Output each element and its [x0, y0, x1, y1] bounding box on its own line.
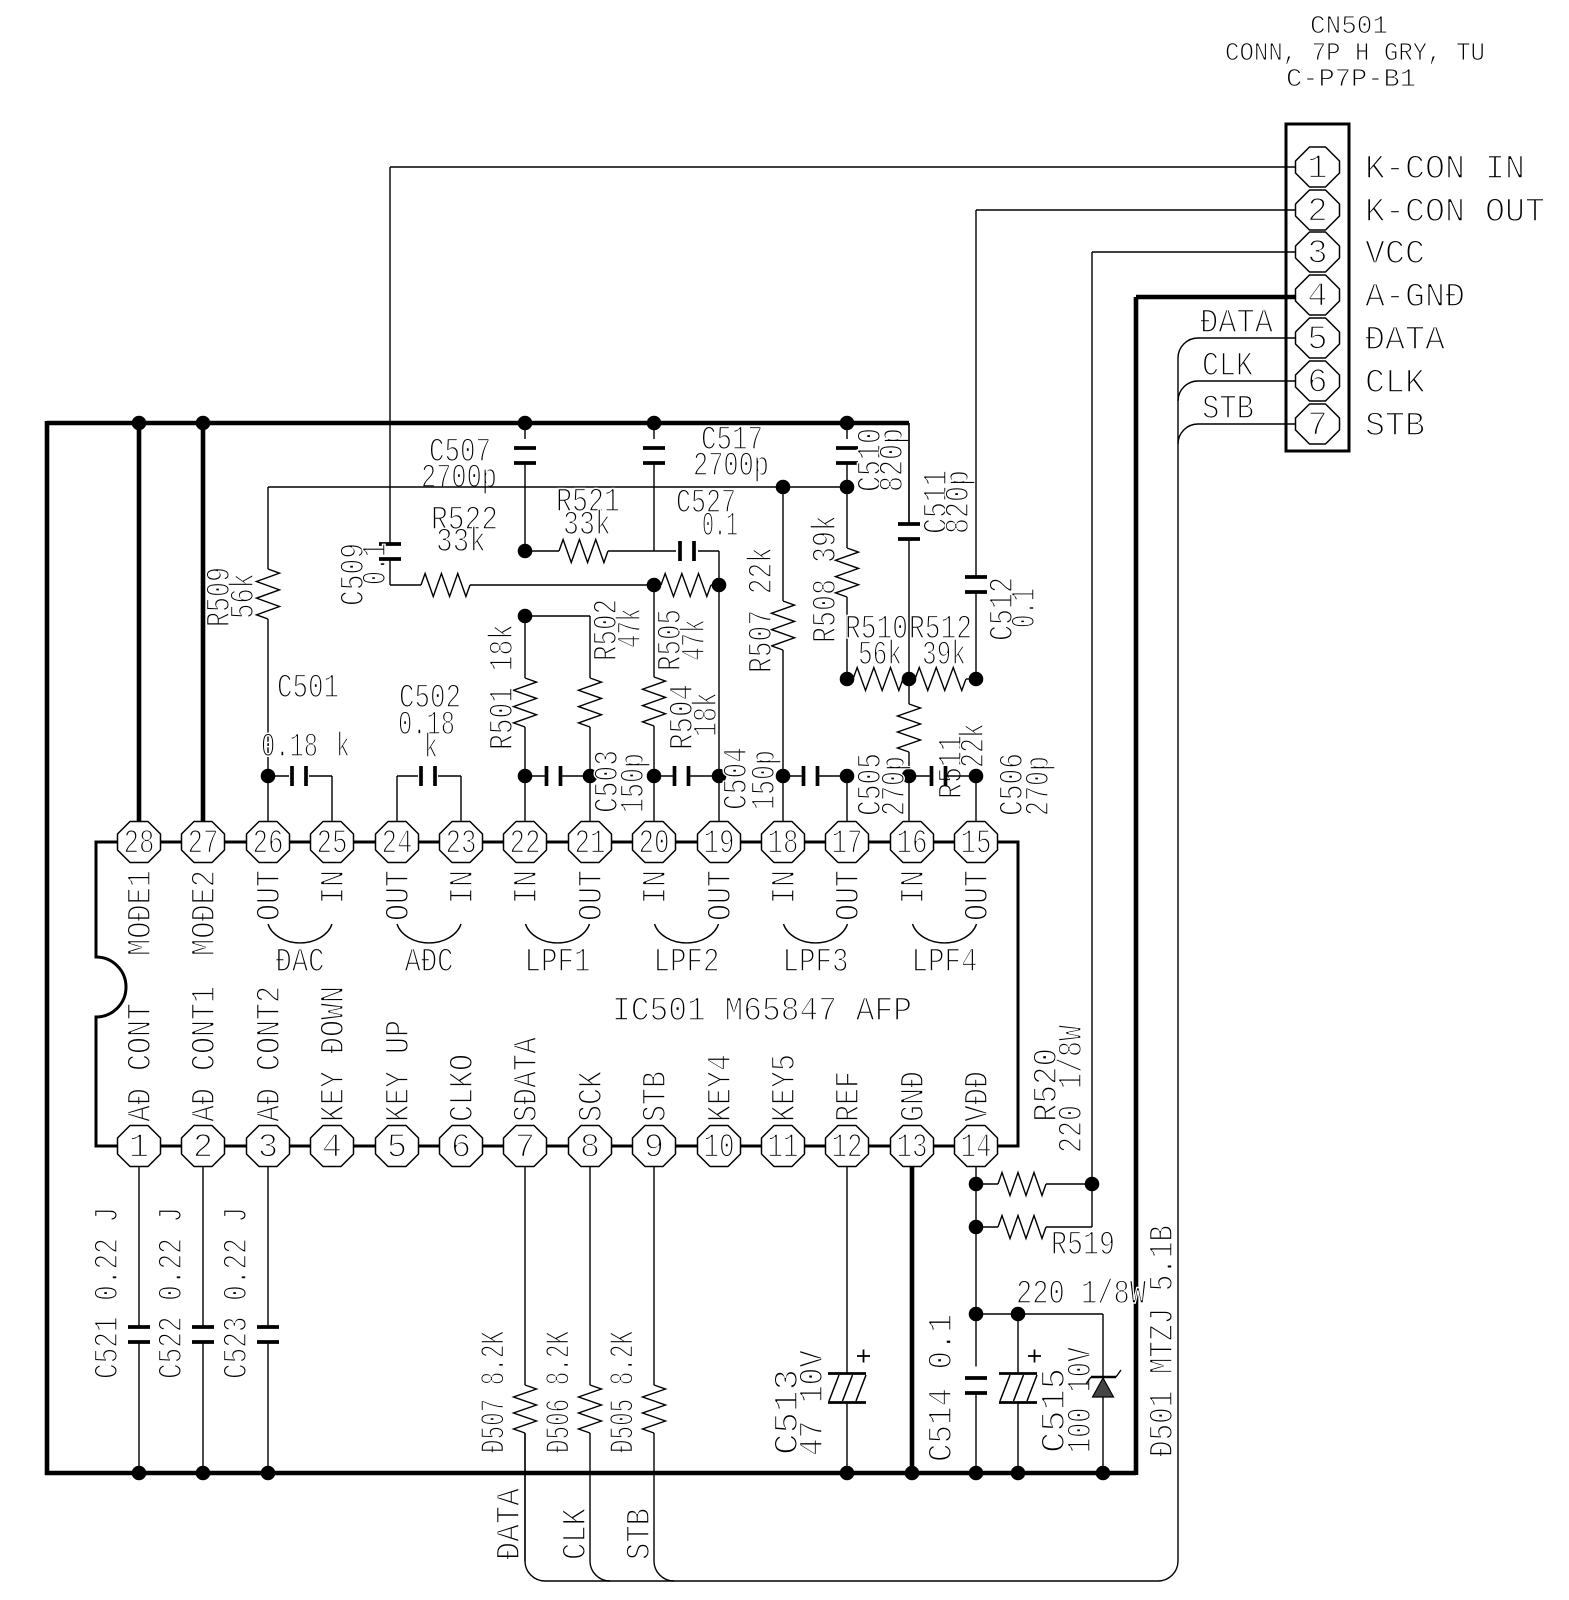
- svg-text:IN: IN: [896, 870, 934, 904]
- capacitor C510 820p (pin17 column): [846, 423, 848, 439]
- resistor R511 22k: [908, 679, 910, 704]
- junction dot cap-row x=654: [647, 769, 662, 784]
- capacitor C504 150p: [654, 775, 674, 777]
- svg-text:ĐATA: ĐATA: [1365, 322, 1446, 360]
- junction dot R510 left / pin17 column: [840, 672, 855, 687]
- svg-text:LPF3: LPF3: [783, 944, 849, 982]
- svg-text:LPF1: LPF1: [525, 944, 591, 982]
- junction dot top bus / C510: [840, 416, 855, 431]
- svg-text:R508 39k: R508 39k: [808, 515, 846, 643]
- junction dot C523 / bottom bus: [261, 1466, 276, 1481]
- svg-text:LPF2: LPF2: [654, 944, 720, 982]
- wire IC pin column x=654 down: [653, 1166, 655, 1385]
- IC pin 17 pad: [826, 822, 869, 863]
- capacitor C522 0.22 J: [192, 1325, 214, 1329]
- svg-text:2: 2: [1307, 194, 1327, 232]
- wire R522 to pin20 column node: [470, 584, 654, 586]
- svg-text:18k: 18k: [689, 692, 727, 737]
- IC pin 11 pad: [762, 1126, 805, 1167]
- IC function arc AĐC: [397, 924, 461, 943]
- wire SDATA corner to bundle: [525, 1561, 545, 1581]
- resistor R505 47k: [654, 584, 661, 586]
- junction dot pin20 / R522 / R505: [647, 578, 662, 593]
- IC pin 15 pad: [955, 822, 998, 863]
- capacitor C505 270p: [783, 775, 803, 777]
- svg-text:56k: 56k: [226, 573, 264, 619]
- junction dot R510/R512/R511 node: [902, 672, 917, 687]
- wire thick pin27 drop from top bus: [201, 423, 206, 823]
- svg-text:LPF4: LPF4: [912, 944, 978, 982]
- junction dot pin14 / C515 branch: [969, 1307, 984, 1322]
- svg-text:6: 6: [451, 1130, 471, 1168]
- wire branch pin22 to R502: [525, 615, 590, 617]
- svg-text:0.1: 0.1: [1007, 588, 1045, 628]
- junction dot R509 / C501 / pin26: [261, 769, 276, 784]
- wire branch pin14 node to D501: [976, 1313, 1103, 1315]
- wire IC pin14 VDD down to bottom bus: [975, 1166, 977, 1367]
- capacitor C513 47 10V electrolytic: [828, 1372, 866, 1375]
- capacitor C511 820p (R511 column): [908, 423, 910, 523]
- resistor R519: [976, 1226, 998, 1228]
- capacitor C502 0.18k: [397, 775, 418, 777]
- svg-text:IN: IN: [509, 870, 547, 904]
- resistor R509 56k: [267, 487, 269, 569]
- IC pin 24 pad: [376, 822, 419, 863]
- svg-text:100 10V: 100 10V: [1063, 1347, 1101, 1453]
- connector CN501 pin 2 pad: [1296, 190, 1340, 230]
- svg-text:4: 4: [322, 1130, 342, 1168]
- svg-text:VĐĐ: VĐĐ: [960, 1071, 998, 1122]
- resistor R508 39k (pin17 column): [846, 487, 848, 548]
- connector CN501 pin 1 pad: [1296, 147, 1340, 187]
- svg-text:SCK: SCK: [574, 1071, 612, 1122]
- svg-text:5: 5: [387, 1130, 407, 1168]
- IC function arc LPF1: [526, 924, 590, 943]
- junction dot cap-row x=719: [712, 769, 727, 784]
- wire DATA/CLK/STB vertical bundle: [1177, 358, 1179, 1561]
- svg-text:VCC: VCC: [1365, 236, 1425, 274]
- junction dot cap-row x=783: [776, 769, 791, 784]
- svg-text:Đ506 8.2K: Đ506 8.2K: [542, 1331, 580, 1453]
- svg-text:Đ507 8.2K: Đ507 8.2K: [477, 1331, 515, 1453]
- IC pin 28 pad: [118, 822, 161, 863]
- svg-text:220 1/8W: 220 1/8W: [1054, 1025, 1092, 1153]
- IC pin 23 pad: [440, 822, 483, 863]
- junction dot D501 / bottom bus: [1096, 1466, 1111, 1481]
- wire VCC column from CN501 pin3: [1092, 251, 1296, 253]
- svg-text:OUT: OUT: [703, 870, 741, 921]
- IC pin 14 pad: [955, 1126, 998, 1167]
- svg-text:33k: 33k: [436, 524, 486, 562]
- svg-text:A-GNĐ: A-GNĐ: [1365, 279, 1465, 317]
- wire thick pin28 drop from top bus: [137, 423, 142, 823]
- IC pin 20 pad: [633, 822, 676, 863]
- svg-text:AĐ CONT: AĐ CONT: [123, 1003, 161, 1122]
- wire thick pin13 GND drop to bottom bus: [910, 1166, 915, 1473]
- svg-text:K-CON IN: K-CON IN: [1365, 151, 1525, 189]
- svg-text:9: 9: [644, 1130, 664, 1168]
- svg-text:11: 11: [768, 1130, 799, 1168]
- svg-text:IN: IN: [445, 870, 483, 904]
- svg-text:7: 7: [515, 1130, 535, 1168]
- svg-text:8: 8: [580, 1130, 600, 1168]
- svg-text:33k: 33k: [563, 507, 611, 545]
- connector CN501 pin 5 pad: [1296, 318, 1340, 358]
- resistor R512 39k: [915, 668, 966, 691]
- svg-text:STB: STB: [622, 1508, 660, 1560]
- svg-text:2: 2: [193, 1130, 213, 1168]
- junction dot VCC / R520: [1085, 1177, 1100, 1192]
- junction dot R512 right / pin15 column: [969, 672, 984, 687]
- junction dot top bus / C517: [647, 416, 662, 431]
- svg-text:5: 5: [1307, 322, 1327, 360]
- wire K-CON IN from CN501 pin1: [390, 166, 1296, 168]
- svg-text:820p: 820p: [875, 428, 913, 492]
- capacitor C509 0.1: [379, 542, 401, 546]
- IC function arc LPF2: [655, 924, 719, 943]
- svg-text:R501 18k: R501 18k: [485, 624, 523, 750]
- svg-text:IN: IN: [316, 870, 354, 904]
- wire bundle bottom corner: [1158, 1561, 1178, 1581]
- junction dot top bus / pin27: [196, 416, 211, 431]
- connector CN501 pin 4 pad: [1296, 275, 1340, 315]
- svg-text:12: 12: [832, 1130, 863, 1168]
- junction dot C521 / bottom bus: [132, 1466, 147, 1481]
- wire IC pin column x=590 down: [589, 1166, 591, 1385]
- svg-text:KEY ĐOWN: KEY ĐOWN: [316, 986, 354, 1122]
- svg-text:19: 19: [704, 826, 735, 864]
- svg-text:MOĐE2: MOĐE2: [187, 870, 225, 956]
- connector CN501 body: [1286, 124, 1349, 451]
- svg-text:0.1: 0.1: [702, 508, 738, 546]
- svg-text:KEY5: KEY5: [767, 1054, 805, 1122]
- svg-text:STB: STB: [638, 1071, 676, 1122]
- junction dot pin19 / R505: [712, 578, 727, 593]
- svg-text:Đ505 8.2K: Đ505 8.2K: [606, 1331, 644, 1453]
- wire SCK corner to bundle: [590, 1561, 610, 1581]
- IC pin 22 pad: [504, 822, 547, 863]
- resistor Đ506 8.2K: [579, 1385, 602, 1433]
- wire bundle bottom horizontal: [545, 1580, 1158, 1582]
- junction dot C513 / bottom bus: [840, 1466, 855, 1481]
- junction dot top bus / pin28: [132, 416, 147, 431]
- resistor R510 56k: [853, 668, 903, 691]
- svg-text:15: 15: [961, 826, 992, 864]
- svg-text:56k: 56k: [858, 637, 902, 675]
- svg-text:0.18: 0.18: [261, 729, 318, 767]
- wires cap-row columns down to IC pins: [524, 776, 526, 823]
- svg-text:6: 6: [1307, 365, 1327, 403]
- svg-text:39k: 39k: [922, 637, 966, 675]
- capacitor C517 2700p (pin20 column): [653, 423, 655, 439]
- svg-text:20: 20: [639, 826, 670, 864]
- svg-text:10: 10: [704, 1130, 735, 1168]
- junction dot pin22 / R521 / C507: [518, 544, 533, 559]
- capacitor C501 0.18k: [268, 775, 289, 777]
- svg-text:OUT: OUT: [574, 870, 612, 921]
- IC pin 4 pad: [311, 1126, 354, 1167]
- svg-text:CLK: CLK: [1365, 365, 1426, 403]
- capacitor C514 0.1: [965, 1376, 987, 1380]
- svg-text:26: 26: [253, 826, 284, 864]
- svg-text:150p: 150p: [616, 753, 654, 813]
- junction dot pin13 / bottom bus: [905, 1466, 920, 1481]
- connector CN501 pin 6 pad: [1296, 361, 1340, 401]
- svg-text:150p: 150p: [747, 750, 785, 810]
- svg-text:ĐATA: ĐATA: [1200, 305, 1274, 343]
- svg-text:3: 3: [1307, 236, 1327, 274]
- capacitor C515 100 10V electrolytic: [1017, 1314, 1019, 1374]
- resistor R522 33k: [421, 574, 470, 597]
- capacitor C521 0.22 J: [128, 1325, 150, 1329]
- junction dot pin14 / bottom bus: [969, 1466, 984, 1481]
- svg-text:R507 22k: R507 22k: [744, 547, 782, 673]
- svg-text:STB: STB: [1365, 408, 1425, 446]
- svg-text:1: 1: [1307, 151, 1327, 189]
- wire pin19 column down from C527: [718, 551, 720, 776]
- resistor R521 33k: [525, 550, 559, 552]
- wire CN501 pin7 STB with corner: [1198, 423, 1296, 425]
- svg-text:21: 21: [575, 826, 606, 864]
- svg-text:270p: 270p: [1021, 756, 1059, 816]
- svg-text:28: 28: [124, 826, 155, 864]
- wire IC pin2 down to C522: [202, 1166, 204, 1326]
- resistor R502 47k (pin21 column): [589, 616, 591, 678]
- junction dot C515 branch: [1011, 1307, 1026, 1322]
- junction dot C515 / bottom bus: [1011, 1466, 1026, 1481]
- svg-text:2700p: 2700p: [693, 448, 769, 486]
- wire thick A-GND into CN501 pin 4: [1136, 295, 1296, 300]
- svg-text:KEY4: KEY4: [703, 1054, 741, 1122]
- zener diode D501 MTZJ 5.1B: [1102, 1314, 1104, 1377]
- junction dot cap-row x=590: [583, 769, 598, 784]
- capacitor C507 2700p (pin22 column): [524, 423, 526, 439]
- capacitor C512 0.1 (pin15 column, K-CON OUT): [975, 210, 977, 576]
- svg-text:25: 25: [317, 826, 348, 864]
- IC pin 10 pad: [698, 1126, 741, 1167]
- wire IC pin12 REF down to C513: [846, 1166, 848, 1374]
- svg-text:AĐC: AĐC: [405, 944, 454, 982]
- IC pin 6 pad: [440, 1126, 483, 1167]
- junction dot cap-row x=976: [969, 769, 984, 784]
- junction dot cap-row x=847: [840, 769, 855, 784]
- capacitor C527 0.1: [654, 550, 676, 552]
- junction dot cap-row x=909: [902, 769, 917, 784]
- svg-text:0.1: 0.1: [358, 543, 396, 585]
- svg-text:14: 14: [961, 1130, 992, 1168]
- IC pin 1 pad: [118, 1126, 161, 1167]
- svg-text:27: 27: [188, 826, 219, 864]
- IC pin 5 pad: [376, 1126, 419, 1167]
- svg-text:IN: IN: [638, 870, 676, 904]
- IC pin 12 pad: [826, 1126, 869, 1167]
- connector CN501 pin 7 pad: [1296, 404, 1340, 444]
- svg-text:C514 0.1: C514 0.1: [924, 1314, 962, 1462]
- svg-text:CLK: CLK: [1202, 348, 1253, 386]
- wire thick left bus vertical: [45, 421, 50, 1475]
- svg-text:820p: 820p: [941, 470, 979, 534]
- svg-text:22: 22: [510, 826, 541, 864]
- svg-text:AĐ CONT1: AĐ CONT1: [187, 986, 225, 1122]
- svg-text:C523 0.22 J: C523 0.22 J: [219, 1207, 257, 1379]
- junction dot pin14 / R519: [969, 1220, 984, 1235]
- wire thick A-GND riser to CN501 pin 4: [1134, 297, 1139, 1475]
- svg-text:GNĐ: GNĐ: [896, 1071, 934, 1122]
- wire CN501 pin2 K-CON OUT: [976, 209, 1296, 211]
- wire R509 net horizontal: [268, 486, 847, 488]
- connector CN501 pin 3 pad: [1296, 232, 1340, 272]
- wire thick bottom bus (ground/A-GND): [45, 1471, 1136, 1476]
- junction dot pin14 / R520: [969, 1177, 984, 1192]
- IC pin 19 pad: [698, 822, 741, 863]
- svg-text:1: 1: [129, 1130, 149, 1168]
- svg-text:STB: STB: [1202, 391, 1254, 429]
- IC U1 IC501 M65847 AFP body: [96, 842, 1018, 1146]
- svg-text:OUT: OUT: [831, 870, 869, 921]
- IC pin 13 pad: [891, 1126, 934, 1167]
- IC pin 16 pad: [891, 822, 934, 863]
- wire IC pin column x=525 down: [524, 1166, 526, 1385]
- IC pin 3 pad: [247, 1126, 290, 1167]
- svg-text:K-CON OUT: K-CON OUT: [1365, 194, 1545, 232]
- IC pin 21 pad: [569, 822, 612, 863]
- junction dot R509-net / C510-R508: [840, 480, 855, 495]
- capacitor C506 270p: [909, 775, 931, 777]
- svg-text:CLK: CLK: [558, 1508, 596, 1560]
- svg-text:ĐAC: ĐAC: [276, 944, 325, 982]
- svg-text:16: 16: [897, 826, 928, 864]
- svg-text:2700p: 2700p: [421, 460, 497, 498]
- svg-text:CLKO: CLKO: [445, 1054, 483, 1122]
- capacitor C503 150p: [525, 775, 546, 777]
- svg-text:23: 23: [446, 826, 477, 864]
- wire IC pin1 down to C521: [138, 1166, 140, 1326]
- wire thick top bus (pins 28/27 supply): [47, 421, 909, 426]
- IC pin 26 pad: [247, 822, 290, 863]
- junction dot cap-row x=525: [518, 769, 533, 784]
- resistor Đ505 8.2K: [643, 1385, 666, 1433]
- svg-text:IC501 M65847 AFP: IC501 M65847 AFP: [612, 993, 912, 1031]
- svg-text:47 10V: 47 10V: [795, 1349, 833, 1456]
- svg-text:4: 4: [1307, 279, 1327, 317]
- junction dot C522 / bottom bus: [196, 1466, 211, 1481]
- svg-text:AĐ CONT2: AĐ CONT2: [252, 986, 290, 1122]
- svg-text:7: 7: [1307, 408, 1327, 446]
- svg-text:k: k: [336, 729, 350, 767]
- IC pin 25 pad: [311, 822, 354, 863]
- svg-text:22k: 22k: [956, 723, 994, 768]
- svg-text:47k: 47k: [613, 608, 651, 648]
- svg-text:18: 18: [768, 826, 799, 864]
- svg-text:OUT: OUT: [960, 870, 998, 921]
- wire K-CON IN vertical to C509: [389, 167, 391, 543]
- wire CN501 pin5 DATA with corner: [1198, 337, 1296, 339]
- svg-text:OUT: OUT: [252, 870, 290, 921]
- IC function arc ĐAC: [268, 924, 332, 943]
- svg-text:MOĐE1: MOĐE1: [123, 870, 161, 956]
- svg-text:24: 24: [382, 826, 413, 864]
- junction dot pin22 / R502 branch: [518, 609, 533, 624]
- svg-text:C522 0.22 J: C522 0.22 J: [154, 1207, 192, 1379]
- IC pin 18 pad: [762, 822, 805, 863]
- svg-text:13: 13: [897, 1130, 928, 1168]
- svg-text:CN501: CN501: [1310, 11, 1388, 41]
- IC pin 27 pad: [182, 822, 225, 863]
- svg-text:220 1/8W: 220 1/8W: [1016, 1276, 1146, 1314]
- IC pin 7 pad: [504, 1126, 547, 1167]
- wire CN501 pin6 CLK with corner: [1198, 380, 1296, 382]
- resistor R507 22k (pin18 column): [782, 487, 784, 601]
- svg-text:IN: IN: [767, 870, 805, 904]
- svg-text:C-P7P-B1: C-P7P-B1: [1286, 64, 1416, 94]
- IC pin 8 pad: [569, 1126, 612, 1167]
- resistor R501 18k (pin22 column): [524, 616, 526, 678]
- svg-text:ĐATA: ĐATA: [492, 1487, 530, 1560]
- IC pin 9 pad: [633, 1126, 676, 1167]
- resistor R520 220 1/8W: [976, 1183, 998, 1185]
- IC pin 2 pad: [182, 1126, 225, 1167]
- svg-text:3: 3: [258, 1130, 278, 1168]
- junction dot R509-net / R507: [776, 480, 791, 495]
- svg-text:R519: R519: [1051, 1227, 1115, 1265]
- wire top-bus end down to C511: [908, 423, 910, 523]
- svg-text:47k: 47k: [677, 619, 715, 661]
- svg-text:REF: REF: [831, 1071, 869, 1122]
- resistor Đ507 8.2K: [514, 1385, 537, 1433]
- IC function arc LPF3: [784, 924, 848, 943]
- wire C509 to R522: [390, 584, 421, 586]
- svg-text:SĐATA: SĐATA: [509, 1037, 547, 1122]
- capacitor C523 0.22 J: [257, 1325, 279, 1329]
- wire IC pin3 down to C523: [267, 1166, 269, 1326]
- svg-text:KEY UP: KEY UP: [381, 1020, 419, 1122]
- svg-text:C501: C501: [277, 670, 339, 708]
- svg-text:OUT: OUT: [381, 870, 419, 921]
- wire STB corner to bundle: [654, 1561, 674, 1581]
- svg-text:17: 17: [832, 826, 863, 864]
- junction dot top bus / C507: [518, 416, 533, 431]
- svg-text:k: k: [424, 730, 438, 768]
- svg-text:C521 0.22 J: C521 0.22 J: [90, 1207, 128, 1379]
- resistor R504 18k (pin20 column): [653, 585, 655, 677]
- IC function arc LPF4: [913, 924, 977, 943]
